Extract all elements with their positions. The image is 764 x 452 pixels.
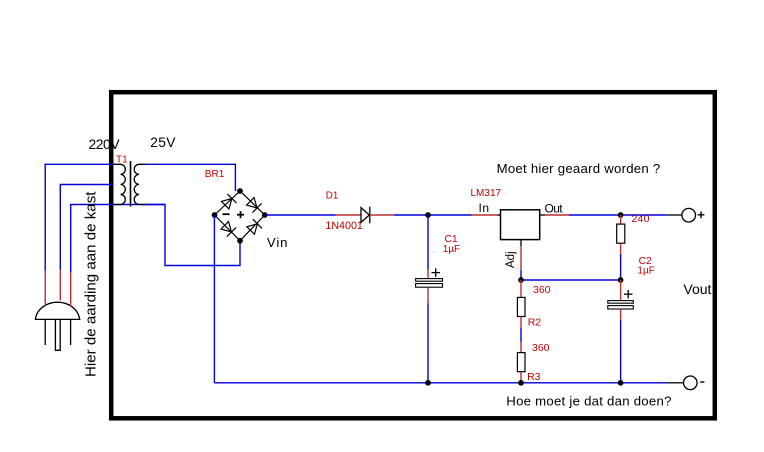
svg-text:1N4001: 1N4001 (325, 220, 362, 232)
transformer T1 secondary winding (134, 164, 145, 204)
wire: R3 bottom lead (red) (520, 372, 522, 381)
wire: 240 node to plus terminal (blue) (621, 214, 668, 216)
wire: Adj junction to C2 node (blue) (521, 279, 621, 281)
svg-text:Moet hier geaard worden ?: Moet hier geaard worden ? (497, 161, 661, 176)
svg-text:BR1: BR1 (205, 169, 225, 180)
wire: red lead earth into plug (59, 270, 61, 301)
svg-text:R3: R3 (527, 371, 541, 383)
wire: neutral from plug to transformer primary bottom (71, 205, 165, 273)
node bridge right (plus, Vin) (262, 212, 268, 218)
node bridge top (237, 188, 243, 194)
enclosure case border (kast) (111, 92, 715, 418)
capacitor C1 polarity plus (432, 268, 441, 277)
terminal minus output (684, 376, 698, 390)
svg-text:360: 360 (532, 342, 550, 354)
bridge diode BR1b (top to right) (246, 197, 262, 213)
svg-text:In: In (479, 201, 490, 215)
resistor R3 body (517, 353, 525, 372)
resistor R2 body (517, 297, 525, 316)
bridge diode BR1d (bottom to right) (246, 219, 262, 235)
wire: secondary bottom to bridge AC bottom (145, 205, 240, 266)
terminal plus mark (698, 211, 705, 218)
wire: C1 top lead (red) (427, 270, 429, 279)
wire: Adj lead to junction (blue) (520, 270, 522, 280)
wire: red lead live into plug (44, 271, 46, 307)
node R3/bottom rail junction (518, 380, 524, 386)
svg-text:Vout: Vout (683, 281, 711, 297)
wire: LM317 Adj pin stub (black) (520, 240, 522, 246)
terminal plus output (682, 208, 696, 222)
node C2/240 junction (618, 277, 624, 283)
wire: 240 bottom lead (red) (620, 243, 622, 254)
svg-text:Out: Out (545, 201, 564, 215)
svg-text:240: 240 (632, 213, 650, 225)
wire: R2 to R3 (blue) (520, 328, 522, 342)
wire: Out to 240 node (blue) (569, 214, 621, 216)
wire: C2 top lead (red) (620, 280, 622, 301)
wire: C1 to bottom rail (blue) (427, 303, 429, 383)
svg-text:220V: 220V (89, 137, 121, 152)
capacitor C2 (608, 301, 634, 309)
svg-text:360: 360 (533, 284, 551, 296)
svg-text:Hier de aarding aan de kast: Hier de aarding aan de kast (83, 191, 100, 377)
wire: bridge minus node down to bottom rail (213, 215, 215, 383)
wire: C1 node to LM317 In (blue) (428, 214, 472, 216)
wire: LM317 Out pin lead (red) (545, 214, 569, 216)
node Vin/C1 junction (425, 212, 431, 218)
node bridge bottom (237, 238, 243, 244)
bridge BR1 diamond edges (215, 191, 265, 241)
svg-text:D1: D1 (326, 191, 339, 202)
wire: earth from plug to case border (60, 185, 113, 270)
wire: bridge plus to D1 anode (blue) (265, 214, 336, 216)
node C1/bottom rail junction (425, 380, 431, 386)
mains plug P1 (35, 302, 81, 350)
svg-text:LM317: LM317 (471, 188, 502, 199)
wire: LM317 In pin stub (black) (497, 214, 501, 216)
bridge BR1 minus mark (223, 213, 230, 215)
wire: bottom return rail (blue) (214, 382, 668, 384)
wire: red lead neutral into plug (70, 272, 72, 306)
resistor R1 240 body (617, 224, 625, 243)
wire: C1 node down (blue) (427, 215, 429, 270)
node C2/bottom rail junction (618, 380, 624, 386)
regulator U1 LM317 body (501, 210, 540, 240)
wire: plus terminal stub (black) (668, 214, 682, 216)
bridge BR1 plus mark (237, 211, 244, 218)
svg-text:Vin: Vin (267, 235, 289, 250)
bridge diode BR1c (left to bottom) (220, 221, 236, 237)
wire: R2 bottom lead (red) (520, 317, 522, 328)
svg-text:25V: 25V (150, 135, 176, 150)
wire: minus terminal stub (black) (668, 382, 683, 384)
transformer T1 primary winding (114, 164, 125, 204)
svg-text:1µF: 1µF (637, 265, 654, 276)
wire: LM317 Out pin stub (black) (540, 214, 545, 216)
wire: D1 to C1 node (blue) (394, 214, 428, 216)
wire: R2 top lead (red) (520, 280, 522, 297)
node Out/240 junction (618, 212, 624, 218)
wire: secondary top to bridge AC top (145, 164, 235, 191)
wire: C2 bottom lead (red) (620, 309, 622, 320)
wire: Adj lead (red) (520, 246, 522, 270)
wire: 240 to C2 node (blue) (620, 254, 622, 280)
svg-text:1µF: 1µF (443, 244, 460, 255)
capacitor C1 (416, 279, 443, 288)
terminal minus mark (700, 381, 704, 383)
wire: C2 to bottom rail (blue) (620, 320, 622, 383)
capacitor C2 polarity plus (624, 290, 633, 299)
svg-text:R2: R2 (528, 317, 542, 329)
wire: D1 anode lead (red) (336, 214, 361, 216)
diode D1 (361, 207, 370, 224)
node Adj junction (518, 277, 524, 283)
wire: live from plug up to transformer primary top (45, 164, 114, 270)
transformer T1 core (130, 161, 132, 207)
wire: C1 bottom lead (red) (427, 287, 429, 303)
svg-text:Adj: Adj (505, 251, 517, 268)
wire: R3 top lead (red) (520, 342, 522, 353)
bridge diode BR1a (left to top) (221, 194, 237, 210)
wire: LM317 In pin lead (red) (472, 214, 498, 216)
svg-text:Hoe moet je dat dan doen?: Hoe moet je dat dan doen? (506, 393, 671, 408)
wire: 240 top lead (red) (620, 215, 622, 224)
wire: D1 cathode lead (red) (370, 214, 394, 216)
node bridge left (minus) (212, 212, 218, 218)
